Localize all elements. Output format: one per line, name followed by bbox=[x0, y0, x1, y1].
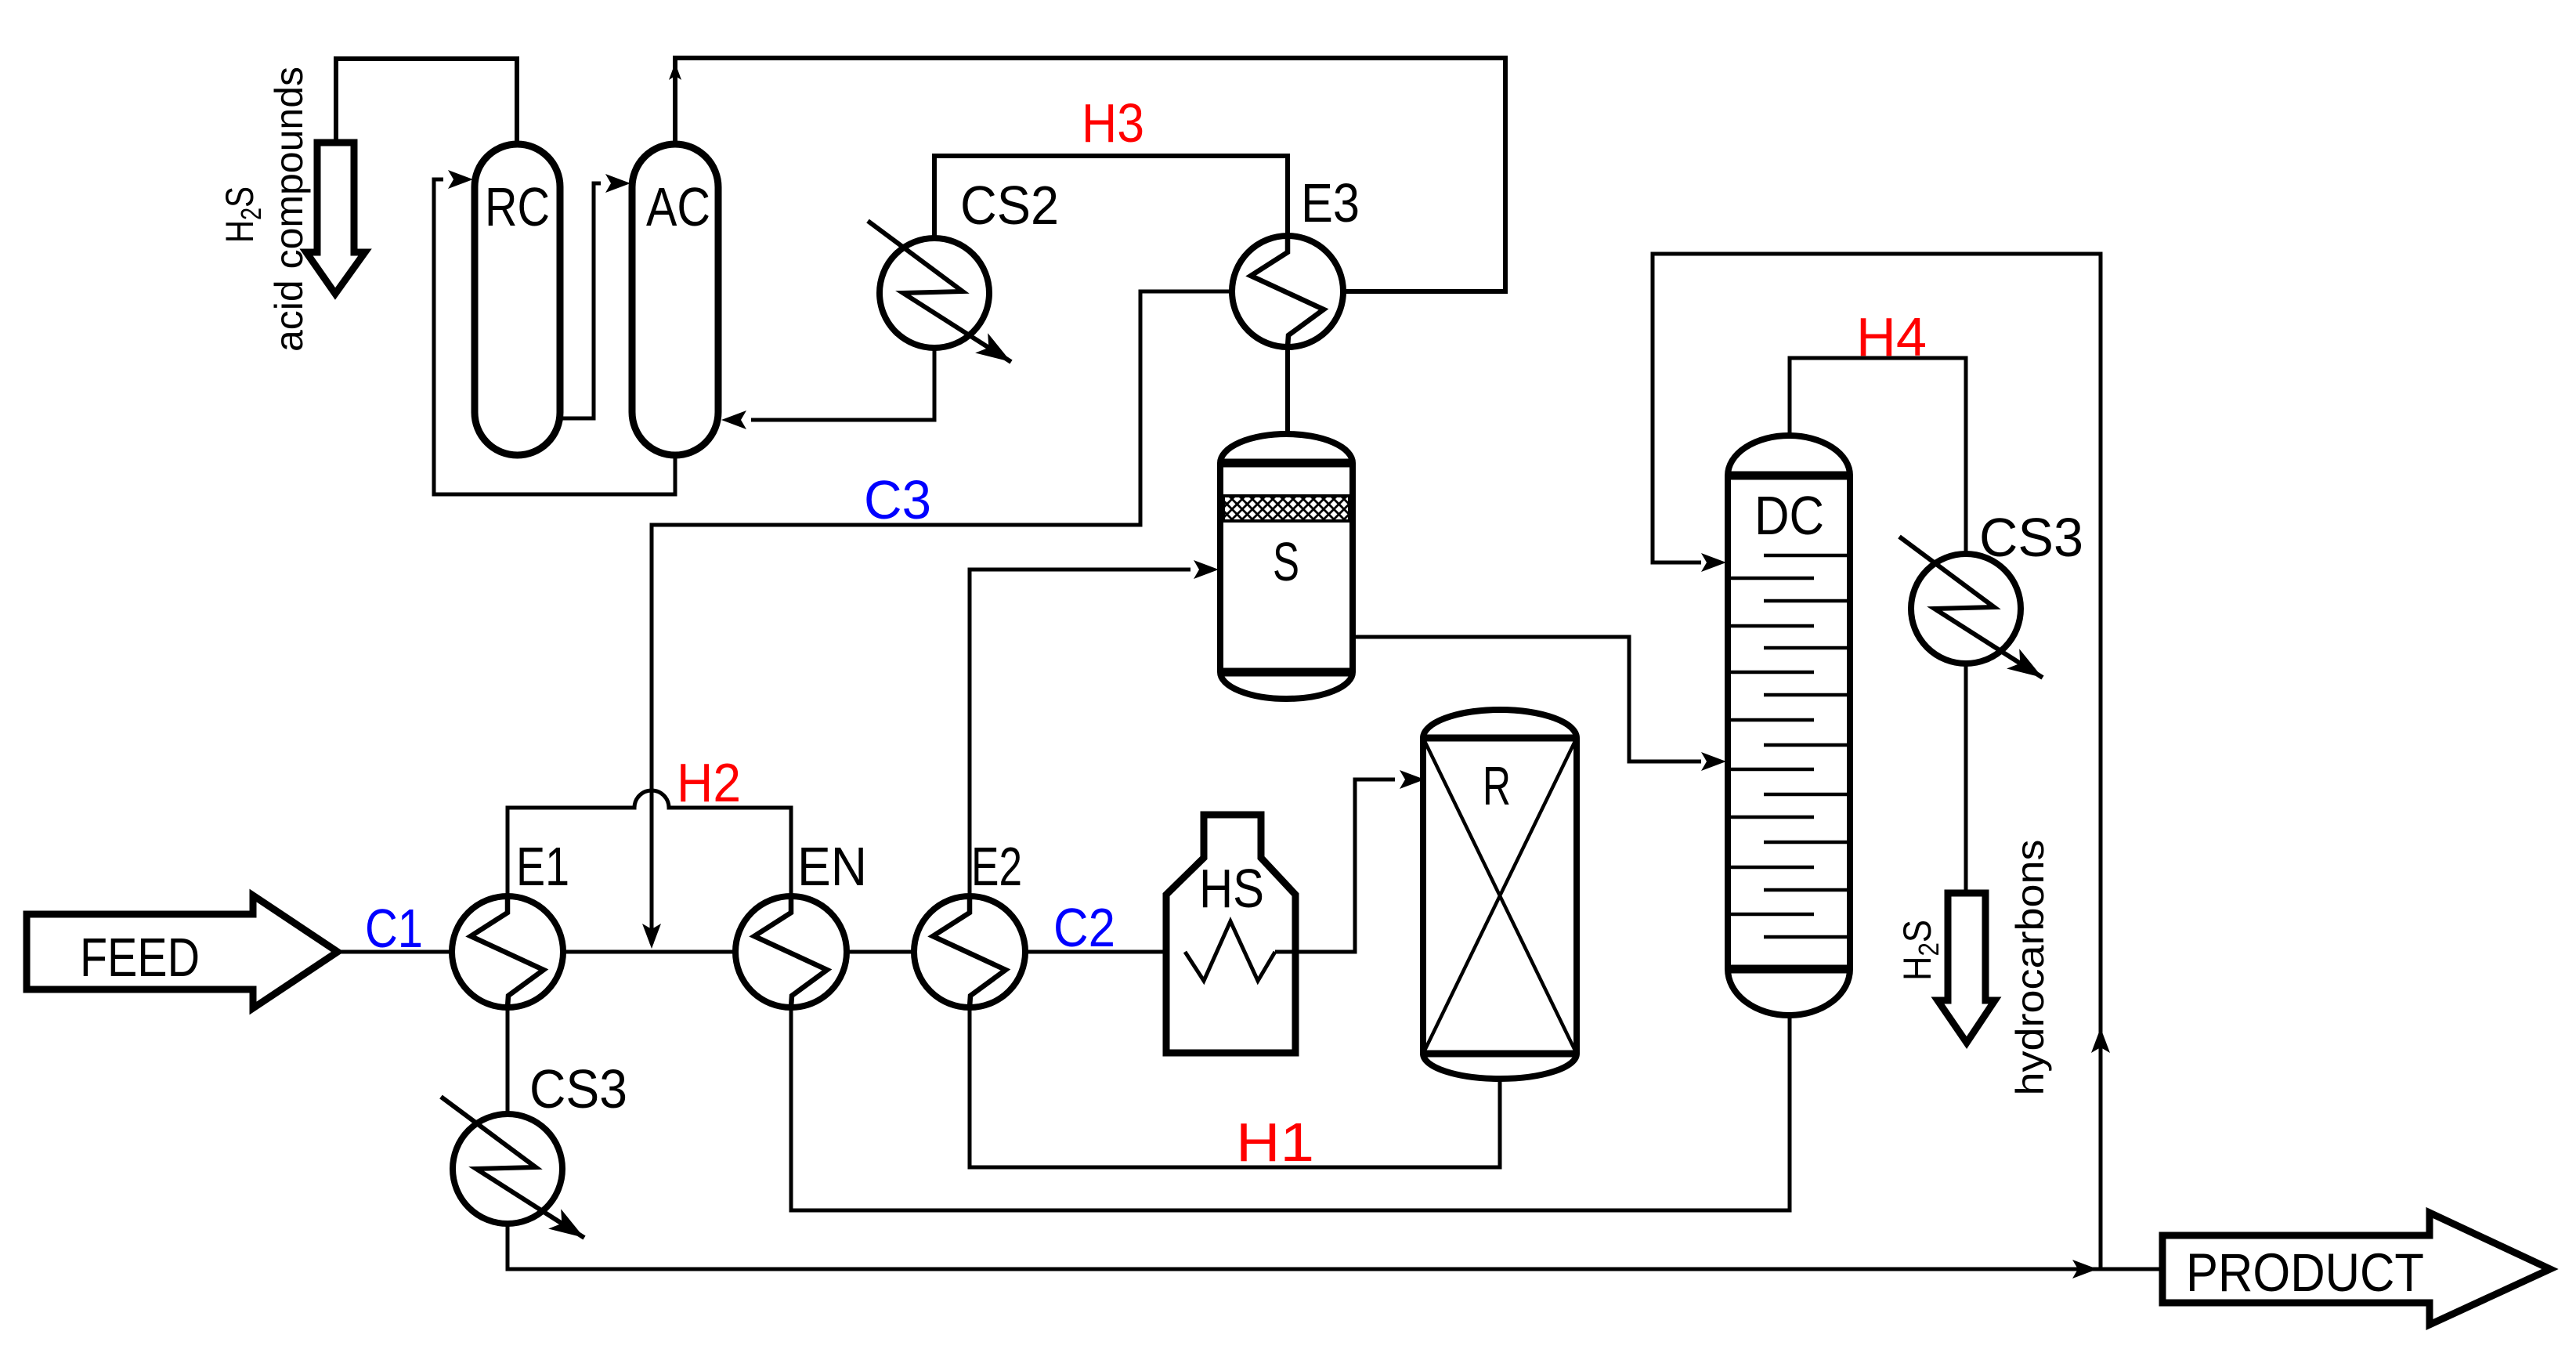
wire CS3 right bottom to vent arrow bbox=[1964, 664, 1968, 893]
heat exchanger EN bbox=[735, 896, 847, 1007]
svg-text:AC: AC bbox=[646, 176, 710, 237]
block arrow H2S acid compounds out (down) bbox=[306, 143, 365, 294]
wire C3: E3 left down to main feed line bbox=[652, 291, 1232, 944]
svg-text:H2: H2 bbox=[677, 752, 741, 813]
wire main line FEED to E1 bbox=[338, 950, 452, 954]
svg-text:EN: EN bbox=[797, 836, 867, 897]
svg-text:HS: HS bbox=[1199, 858, 1264, 919]
svg-text:S: S bbox=[1273, 531, 1299, 592]
cooler CS2 bbox=[868, 221, 1011, 362]
svg-text:R: R bbox=[1483, 755, 1511, 816]
arrowhead product line before junction bbox=[2072, 1260, 2097, 1278]
svg-text:H4: H4 bbox=[1856, 306, 1927, 367]
svg-text:H3: H3 bbox=[1082, 92, 1144, 154]
wire E2 top to separator S inlet bbox=[970, 570, 1190, 896]
wire S liquid outlet to DC lower inlet bbox=[1353, 637, 1701, 761]
trays DC (right-attached) bbox=[1764, 555, 1848, 937]
arrowhead into DC lower bbox=[1701, 752, 1726, 771]
column DC bbox=[1728, 436, 1850, 1015]
block arrow PRODUCT out (right) bbox=[2162, 1213, 2550, 1325]
wire CS2 bottom to AC right inlet bbox=[751, 348, 934, 420]
wire E1 bottom to CS3 left cooler bbox=[506, 1007, 510, 1114]
wire HS outlet to R inlet bbox=[1275, 779, 1395, 952]
seam DC bottom bbox=[1726, 965, 1852, 974]
wire DC bottoms to EN bottom bbox=[791, 1007, 1790, 1210]
seam S bottom bbox=[1219, 668, 1354, 677]
trays DC (left-attached) bbox=[1730, 578, 1814, 914]
wire main line E1 to EN bbox=[563, 950, 735, 954]
wire RC vent: RC top up-left to acid gas arrow bbox=[336, 59, 517, 146]
arrowhead into R bbox=[1400, 770, 1425, 789]
arrowhead into AC right bbox=[721, 410, 746, 429]
arrowhead into RC left bbox=[448, 170, 473, 189]
svg-text:PRODUCT: PRODUCT bbox=[2186, 1242, 2424, 1303]
block arrow FEED in (right) bbox=[27, 895, 338, 1008]
block arrow H2S hydrocarbons out (down) bbox=[1938, 893, 1995, 1043]
wire main line E2 to HS zigzag bbox=[1025, 950, 1185, 954]
svg-text:E3: E3 bbox=[1301, 172, 1360, 233]
svg-text:CS3: CS3 bbox=[529, 1058, 627, 1119]
separator S bbox=[1220, 434, 1353, 699]
arrowhead into AC left bbox=[605, 174, 630, 193]
arrowhead into DC upper bbox=[1701, 553, 1726, 572]
furnace HS bbox=[1166, 815, 1295, 1053]
wire H1: R bottom to E2 bottom bbox=[970, 1007, 1500, 1167]
wire CS3 left bottom to PRODUCT junction bbox=[508, 1224, 2162, 1269]
heat exchanger E2 bbox=[914, 896, 1025, 1007]
svg-text:C2: C2 bbox=[1053, 897, 1115, 958]
wire H2: EN top to E1 top with hop over C3 line bbox=[508, 790, 791, 896]
wire H3: E3 top to CS2 top bbox=[934, 156, 1288, 238]
arrowhead into S bbox=[1194, 560, 1219, 579]
wire RC bottom-right outlet to AC top-left inlet bbox=[560, 183, 601, 418]
wire AC top to E3 right (recycle gas) bbox=[675, 58, 1505, 291]
wire AC bottom recycle to RC top-left inlet bbox=[434, 179, 675, 494]
arrowhead up on reflux riser bbox=[2091, 1028, 2110, 1053]
column AC bbox=[632, 144, 718, 455]
svg-text:C1: C1 bbox=[365, 898, 423, 959]
svg-text:hydrocarbons: hydrocarbons bbox=[2008, 840, 2052, 1096]
reactor R bbox=[1423, 710, 1577, 1079]
svg-text:CS2: CS2 bbox=[960, 175, 1059, 236]
seam S top bbox=[1219, 459, 1354, 468]
cooler CS3 (right) bbox=[1899, 537, 2043, 678]
wire H4: DC top to CS3 right cooler bbox=[1790, 358, 1966, 554]
arrowhead C3 into main line bbox=[642, 924, 661, 949]
seam DC top bbox=[1726, 472, 1852, 480]
heat exchanger E3 bbox=[1232, 236, 1343, 347]
svg-text:acid compounds: acid compounds bbox=[267, 67, 311, 352]
svg-text:DC: DC bbox=[1754, 485, 1824, 546]
heat exchanger E1 bbox=[452, 896, 563, 1007]
svg-text:CS3: CS3 bbox=[1979, 507, 2083, 568]
wire main line EN to E2 bbox=[847, 950, 914, 954]
svg-text:E1: E1 bbox=[516, 836, 569, 897]
svg-text:H1: H1 bbox=[1236, 1112, 1314, 1173]
wire S top to E3 bottom bbox=[1285, 347, 1290, 434]
demister hatch band in S bbox=[1223, 496, 1349, 521]
svg-text:FEED: FEED bbox=[80, 927, 200, 988]
svg-text:RC: RC bbox=[485, 176, 550, 237]
svg-text:C3: C3 bbox=[864, 469, 931, 530]
arrowhead up above AC bbox=[669, 63, 681, 80]
wire product reflux riser to DC upper inlet bbox=[1653, 254, 2101, 1269]
column RC bbox=[475, 144, 560, 455]
cooler CS3 (left) bbox=[441, 1097, 584, 1238]
wire/coil zigzag through HS bbox=[1185, 921, 1275, 981]
svg-text:E2: E2 bbox=[971, 836, 1022, 897]
